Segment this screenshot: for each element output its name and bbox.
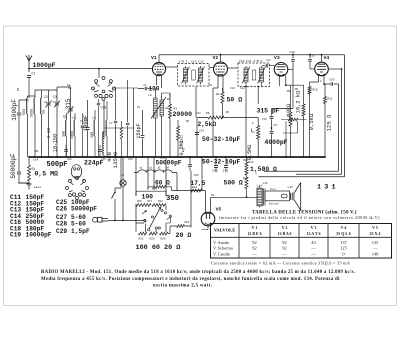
svg-text:R15: R15 — [249, 161, 254, 164]
svg-text:5-60: 5-60 — [48, 127, 52, 138]
inductor L6 — [91, 110, 96, 157]
capacitor C5 100pF — [82, 100, 90, 157]
svg-text:R17: R17 — [148, 200, 153, 203]
svg-text:—: — — [310, 246, 316, 251]
svg-text:C24: C24 — [199, 130, 204, 133]
speaker SP frame — [265, 187, 290, 206]
svg-text:C: C — [17, 87, 20, 93]
svg-text:R1: R1 — [36, 150, 40, 153]
svg-text:R15: R15 — [194, 174, 199, 177]
capacitor C31 50-32-10&#181;F — [202, 157, 241, 173]
svg-text:L9: L9 — [165, 107, 169, 110]
svg-text:S2: S2 — [211, 194, 215, 197]
svg-text:V. Anodo: V. Anodo — [213, 240, 229, 245]
inductor L11 filament choke — [134, 167, 177, 191]
svg-text:12 B A 6: 12 B A 6 — [277, 231, 291, 236]
wire return 3 — [259, 55, 345, 177]
capacitor C28 socket — [97, 99, 107, 157]
wire nested small — [283, 121, 298, 158]
wire grid rail — [28, 68, 152, 70]
capacitor C24 4000pF — [265, 127, 288, 157]
svg-text:4000pF: 4000pF — [265, 139, 288, 146]
svg-text:C26: C26 — [56, 206, 67, 213]
resistor R17 — [152, 204, 166, 207]
svg-text:V 5: V 5 — [372, 225, 378, 230]
text capacitor list left — [10, 194, 52, 239]
resistor R9 10k&#937; — [286, 85, 304, 157]
svg-text:0,5 MΩ: 0,5 MΩ — [35, 171, 59, 178]
resistor R5 1k — [177, 120, 187, 157]
svg-text:C28: C28 — [101, 106, 107, 110]
wire return 1 — [264, 84, 339, 171]
table header — [214, 225, 381, 236]
switch S2 long blade — [148, 207, 161, 231]
svg-text:V. Schermo: V. Schermo — [213, 246, 233, 251]
capacitor C20 — [323, 79, 338, 86]
text model 131 — [317, 183, 339, 191]
svg-text:V 1: V 1 — [252, 225, 258, 230]
svg-text:C4: C4 — [63, 115, 67, 118]
resistor R2 — [120, 121, 123, 157]
capacitor C23 315pF — [257, 69, 294, 128]
inductor L2 — [31, 90, 36, 157]
wire v191 — [190, 171, 192, 228]
svg-text:uscita massima 2,5 watt.: uscita massima 2,5 watt. — [153, 284, 212, 289]
svg-text:C14: C14 — [33, 159, 38, 162]
svg-text:10-150: 10-150 — [53, 134, 59, 152]
svg-text:microm: microm — [269, 202, 279, 206]
svg-text:VALVOLE: VALVOLE — [214, 228, 236, 233]
text 100 350 — [137, 194, 179, 204]
trimmer C2 — [44, 90, 52, 157]
svg-text:V4: V4 — [324, 55, 330, 61]
tiny labels sprinkle — [36, 59, 323, 197]
capacitor C22 50000pF — [10, 153, 21, 179]
svg-text:1,500 Ω: 1,500 Ω — [250, 166, 277, 173]
capacitor C9 — [262, 64, 274, 67]
svg-text:C3: C3 — [53, 95, 57, 99]
tube V5 — [201, 191, 221, 239]
connector J1 phono — [93, 217, 146, 222]
svg-text:C22: C22 — [196, 112, 201, 115]
svg-text:C29: C29 — [56, 228, 67, 235]
wire MF2 bottoms — [245, 86, 259, 158]
resistor R11 0,5k&#937; — [308, 76, 319, 158]
svg-text:Corrente anodica totale = 62 m: Corrente anodica totale = 62 mA — Corren… — [211, 261, 350, 266]
svg-text:500pF: 500pF — [47, 161, 68, 169]
resistor R4 50 ohm — [216, 88, 242, 118]
table rows — [213, 240, 379, 256]
svg-text:100: 100 — [149, 86, 160, 93]
svg-text:C8: C8 — [137, 106, 141, 109]
svg-text:R10: R10 — [313, 89, 318, 92]
wire dropper links — [104, 127, 134, 129]
capacitor C21 1000pF — [11, 87, 21, 121]
svg-text:V3: V3 — [274, 55, 280, 61]
svg-text:R13: R13 — [243, 159, 248, 162]
tube V3 — [274, 55, 288, 86]
wire mid verticals — [136, 157, 202, 196]
svg-text:140: 140 — [372, 251, 379, 256]
resistor R22 — [139, 232, 148, 240]
wire left branch — [19, 100, 29, 183]
svg-text:1000pF: 1000pF — [33, 62, 56, 69]
tube socket SK2 key oval — [71, 165, 81, 179]
svg-text:C25: C25 — [128, 158, 133, 161]
svg-text:3000: 3000 — [71, 131, 75, 139]
svg-text:500: 500 — [23, 109, 27, 115]
potentiometer P1 0,5M&#937; — [247, 87, 260, 161]
svg-text:500 Ω: 500 Ω — [224, 180, 243, 187]
inductor L7 — [103, 101, 113, 157]
bus dots — [48, 156, 311, 158]
svg-text:137: 137 — [340, 240, 347, 245]
svg-text:Sxxl: Sxxl — [270, 187, 277, 191]
svg-text:1000pF: 1000pF — [11, 99, 18, 121]
svg-text:50-32-10µF: 50-32-10µF — [202, 158, 241, 165]
table title — [219, 210, 380, 220]
svg-text:mass: mass — [34, 186, 41, 189]
wire plate rail — [159, 54, 345, 56]
svg-text:V 4: V 4 — [341, 225, 347, 230]
svg-text:C17: C17 — [273, 124, 278, 127]
capacitor C15 224pF — [84, 145, 104, 167]
switch S1 — [112, 157, 122, 220]
ground GND1 — [27, 184, 42, 190]
svg-text:C15: C15 — [262, 118, 267, 121]
svg-text:V 3: V 3 — [311, 225, 317, 230]
IF transformer T2 (2&#176; M.F.) — [238, 59, 270, 87]
svg-text:C9: C9 — [209, 84, 213, 87]
svg-text:R6: R6 — [226, 111, 230, 114]
speaker SP voice coil — [288, 186, 294, 201]
svg-text:35 X 4: 35 X 4 — [370, 231, 381, 236]
wire antenna down — [28, 79, 30, 99]
inductor L3 — [40, 90, 46, 157]
svg-text:R16: R16 — [137, 200, 142, 203]
IF transformer T1 (1&#176; M.F.) — [178, 60, 210, 87]
svg-text:R13: R13 — [152, 188, 157, 191]
capacitor C6 — [80, 113, 84, 157]
svg-text:C21: C21 — [67, 158, 72, 161]
svg-text:—: — — [281, 251, 287, 256]
svg-text:10,2 kΩ: 10,2 kΩ — [296, 90, 302, 113]
table frame — [211, 224, 392, 259]
svg-text:R11: R11 — [328, 98, 333, 101]
svg-text:0: 0 — [342, 251, 345, 256]
svg-text:R19: R19 — [185, 221, 190, 224]
resistor R10 10,2k — [296, 85, 305, 157]
svg-text:C12: C12 — [240, 87, 245, 90]
text 100 60 20 — [136, 244, 181, 252]
svg-text:a3: a3 — [158, 167, 161, 170]
lamp LP1 — [120, 157, 126, 220]
capacitor C19 — [308, 54, 315, 69]
bus chassis — [29, 156, 325, 158]
wire v177 — [176, 190, 178, 191]
svg-text:a1: a1 — [140, 167, 143, 170]
svg-text:C23: C23 — [101, 158, 106, 161]
svg-text:R2: R2 — [167, 98, 171, 101]
svg-text:V2: V2 — [213, 55, 219, 61]
variable capacitor C4 315pF — [65, 83, 74, 157]
svg-text:300: 300 — [91, 132, 95, 138]
svg-text:125: 125 — [340, 246, 347, 251]
svg-text:3: 3 — [320, 80, 322, 83]
wire v133 — [133, 88, 135, 157]
svg-text:C19: C19 — [10, 232, 21, 239]
svg-text:1°M.F. C13 C12: 1°M.F. C13 C12 — [179, 60, 204, 64]
resistor R16 — [136, 204, 151, 207]
svg-text:R14: R14 — [192, 186, 197, 189]
svg-text:L8: L8 — [148, 94, 152, 97]
svg-text:50-32-10µF: 50-32-10µF — [202, 136, 241, 143]
resistor R1 0,5 M&#937; — [18, 156, 58, 184]
svg-text:92: 92 — [282, 240, 286, 245]
svg-text:V. Catodo: V. Catodo — [213, 251, 230, 256]
svg-text:—: — — [372, 246, 378, 251]
svg-text:R1: R1 — [32, 167, 36, 171]
transformer T3 output — [247, 185, 266, 208]
svg-text:L6: L6 — [92, 117, 96, 120]
capacitor C8 150pF — [136, 110, 144, 157]
svg-text:20 Ω: 20 Ω — [176, 232, 192, 239]
svg-text:(misurate fra i piedini della: (misurate fra i piedini della valvola ed… — [219, 215, 380, 220]
svg-text:5-60: 5-60 — [71, 220, 86, 227]
svg-text:V1: V1 — [151, 55, 157, 61]
svg-text:2,5kΩ: 2,5kΩ — [198, 121, 217, 128]
svg-text:100 60 20 Ω: 100 60 20 Ω — [136, 244, 181, 252]
svg-text:1,5pF: 1,5pF — [71, 228, 90, 235]
resistor R6 2,5k — [196, 112, 258, 158]
trimmer labels — [48, 127, 59, 152]
svg-text:50000pF: 50000pF — [10, 153, 17, 179]
svg-text:R22: R22 — [139, 237, 144, 240]
svg-text:50000pF: 50000pF — [71, 206, 97, 213]
svg-text:350: 350 — [166, 195, 179, 203]
caption line2 — [41, 277, 340, 282]
inductor L10 dropper — [103, 101, 104, 157]
resistor R21 20 ohm — [168, 221, 191, 239]
inductor L1 — [23, 96, 28, 157]
wire y88 link — [114, 87, 138, 89]
svg-text:Media frequenza a 455 kc/s. Po: Media frequenza a 455 kc/s. Posizione co… — [41, 277, 340, 282]
caption line1 — [41, 270, 355, 275]
table footnote — [211, 261, 350, 266]
capacitor C1 1000pF — [27, 62, 56, 77]
resistor R20 — [160, 232, 169, 240]
trimmer C3 — [53, 87, 60, 157]
svg-text:R25: R25 — [150, 237, 155, 240]
wire top of coils — [28, 87, 71, 96]
svg-text:V5: V5 — [216, 207, 222, 213]
svg-text:C26: C26 — [160, 157, 165, 160]
svg-text:R4: R4 — [216, 93, 220, 96]
svg-text:P: P — [252, 122, 254, 125]
resistor R23 — [281, 118, 307, 121]
svg-text:12 B E 6: 12 B E 6 — [247, 231, 261, 236]
wire socket drop — [98, 68, 100, 78]
switch S2 contacts — [142, 209, 171, 229]
wire V2 drop — [213, 88, 218, 157]
svg-text:C20: C20 — [329, 79, 335, 82]
capacitor C30 50-32-10&#181;F — [195, 130, 241, 144]
svg-text:C2: C2 — [44, 95, 48, 99]
svg-text:20000: 20000 — [173, 111, 193, 118]
svg-text:(2): (2) — [212, 169, 218, 173]
svg-text:C28: C28 — [56, 220, 67, 227]
svg-text:300: 300 — [63, 131, 67, 137]
svg-text:0,5MΩ: 0,5MΩ — [179, 140, 185, 155]
wire return 4 — [256, 166, 264, 175]
wire return 2 — [296, 68, 342, 174]
wire V1 right — [166, 66, 178, 68]
svg-text:R12: R12 — [243, 177, 248, 180]
inductor L8 osc — [148, 89, 170, 158]
svg-text:125 Ω: 125 Ω — [326, 114, 333, 131]
resistor R13 60 ohm — [148, 180, 190, 191]
svg-text:L15: L15 — [288, 186, 294, 189]
resistor R19 500 — [224, 177, 249, 197]
resistor R12 125 ohm — [324, 84, 333, 158]
inductor L4 — [63, 113, 68, 157]
svg-text:C1: C1 — [32, 72, 36, 76]
svg-text:135: 135 — [372, 240, 379, 245]
tube V2 — [213, 55, 238, 92]
svg-text:10000pF: 10000pF — [26, 232, 52, 239]
svg-text:R8: R8 — [287, 115, 291, 118]
svg-text:92: 92 — [282, 246, 286, 251]
svg-text:C10: C10 — [230, 87, 235, 90]
tube V1 — [151, 55, 166, 88]
svg-text:12 A T 6: 12 A T 6 — [307, 231, 321, 236]
svg-text:C11: C11 — [266, 59, 271, 62]
resistor R14 17,5 — [191, 180, 206, 192]
caption line3 — [153, 284, 212, 289]
resistor R3 20000 — [169, 93, 193, 157]
antenna A1 — [26, 55, 32, 72]
svg-text:pF: pF — [67, 83, 73, 89]
text capacitor list right — [56, 199, 97, 235]
capacitor C18 on rail — [288, 51, 295, 69]
svg-text:R18: R18 — [158, 200, 163, 203]
capacitor C14 500pF — [33, 145, 68, 169]
wire v115 — [114, 88, 117, 157]
speaker SP cone — [295, 183, 301, 211]
svg-text:—: — — [310, 251, 316, 256]
svg-text:3000: 3000 — [31, 109, 35, 118]
resistor R25 — [149, 232, 158, 240]
switch network frame — [136, 191, 166, 232]
svg-text:L16: L16 — [263, 182, 268, 185]
svg-text:43: 43 — [311, 240, 316, 245]
svg-text:0,5MΩ: 0,5MΩ — [247, 145, 253, 161]
svg-text:L5: L5 — [72, 117, 76, 120]
svg-text:C10 C11 2°M.F.: C10 C11 2°M.F. — [239, 59, 264, 63]
svg-text:C2: C2 — [44, 101, 48, 104]
junction dots return — [308, 156, 310, 158]
wire to transformer — [191, 191, 247, 199]
resistor R15 1500 — [245, 157, 277, 177]
tube socket SK1 (V1 bottom view) — [92, 77, 116, 101]
svg-text:a4: a4 — [166, 167, 169, 170]
tube V4 — [310, 55, 342, 84]
wire bus-up — [195, 87, 197, 118]
svg-text:131: 131 — [317, 183, 339, 191]
svg-text:V 2: V 2 — [282, 225, 288, 230]
svg-text:50000pF: 50000pF — [156, 160, 182, 167]
svg-text:L7: L7 — [109, 122, 113, 125]
svg-text:R9: R9 — [295, 88, 299, 91]
svg-text:150pF: 150pF — [136, 123, 142, 139]
svg-text:92: 92 — [252, 240, 256, 245]
svg-text:—: — — [251, 251, 257, 256]
svg-text:50: 50 — [43, 110, 47, 114]
svg-text:92: 92 — [252, 246, 256, 251]
svg-text:C3: C3 — [53, 101, 57, 104]
wire MF1 to V2 — [209, 67, 214, 69]
svg-text:C5: C5 — [84, 118, 88, 121]
svg-text:LP: LP — [121, 174, 125, 177]
svg-text:a2: a2 — [149, 167, 152, 170]
vertical label 0,5M — [179, 140, 185, 155]
inductor L5 — [71, 113, 76, 157]
svg-text:50 Ω: 50 Ω — [227, 97, 243, 104]
svg-text:RADIO MARELLI - Mod. 151. Onde: RADIO MARELLI - Mod. 151. Onde medie da … — [41, 270, 355, 275]
svg-text:R6: R6 — [206, 112, 210, 115]
svg-text:1: 1 — [96, 82, 98, 85]
tube socket SK2 — [66, 177, 89, 200]
text dropper values — [106, 151, 119, 168]
svg-text:R20: R20 — [161, 237, 166, 240]
svg-text:315: 315 — [65, 98, 72, 109]
svg-text:5: 5 — [112, 88, 114, 91]
capacitor C17 50000pF — [156, 157, 192, 171]
wire v127 — [126, 80, 129, 157]
svg-text:35 Q L 6: 35 Q L 6 — [336, 231, 351, 236]
svg-text:(1): (1) — [223, 169, 229, 173]
svg-text:C7: C7 — [144, 84, 148, 87]
svg-text:R5: R5 — [186, 120, 190, 123]
capacitor C7 100 — [138, 86, 160, 93]
svg-text:C18: C18 — [290, 51, 296, 54]
